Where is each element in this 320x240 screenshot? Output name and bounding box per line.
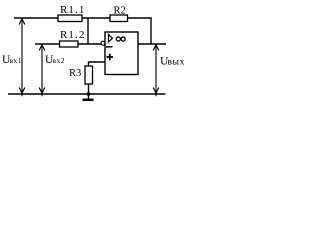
op-amp plus marker [107,56,114,58]
svg-text:R2: R2 [114,6,126,17]
wire mid input (to R1.2) [35,43,60,45]
wire non-inverting input [89,62,106,66]
wire R2 to feedback corner [128,18,152,44]
svg-text:вх2: вх2 [53,56,66,65]
wire junction node down (R1.1/R2 node to inverting input) [87,18,89,44]
wire op-amp output [138,43,166,45]
voltage arrow Uvyx (double-headed) [153,45,159,94]
svg-text:R3: R3 [69,68,81,79]
resistor R1.2 [60,41,79,47]
arrow tip ticks through bottom bus [21,94,23,96]
wire R1.1 to R2 [82,17,110,19]
op-amp minus marker [106,46,113,48]
inversion bubble at op-amp input [101,41,105,45]
op-amp infinity symbol [116,37,120,41]
svg-text:R1.2: R1.2 [60,29,86,41]
wire R1.2 to op-amp inverting input [78,43,101,45]
wire bottom bus [8,93,166,95]
op-amp gain triangle symbol [109,35,113,43]
resistor R3 [85,66,93,84]
wire R3 to ground bus [88,84,90,94]
svg-text:вых: вых [168,58,185,68]
ground symbol [88,94,90,99]
wire top input (to R1.1) [14,17,58,19]
resistor R1.1 [58,15,82,22]
resistor R2 [110,15,128,22]
voltage arrow Uvx1 (double-headed) [19,19,25,94]
svg-text:вх1: вх1 [10,56,23,65]
svg-text:R1.1: R1.1 [60,4,86,16]
op-amp U1 body [105,32,138,75]
junction dot R3/ground bus [87,92,91,96]
voltage arrow Uvx2 (double-headed) [39,45,45,94]
